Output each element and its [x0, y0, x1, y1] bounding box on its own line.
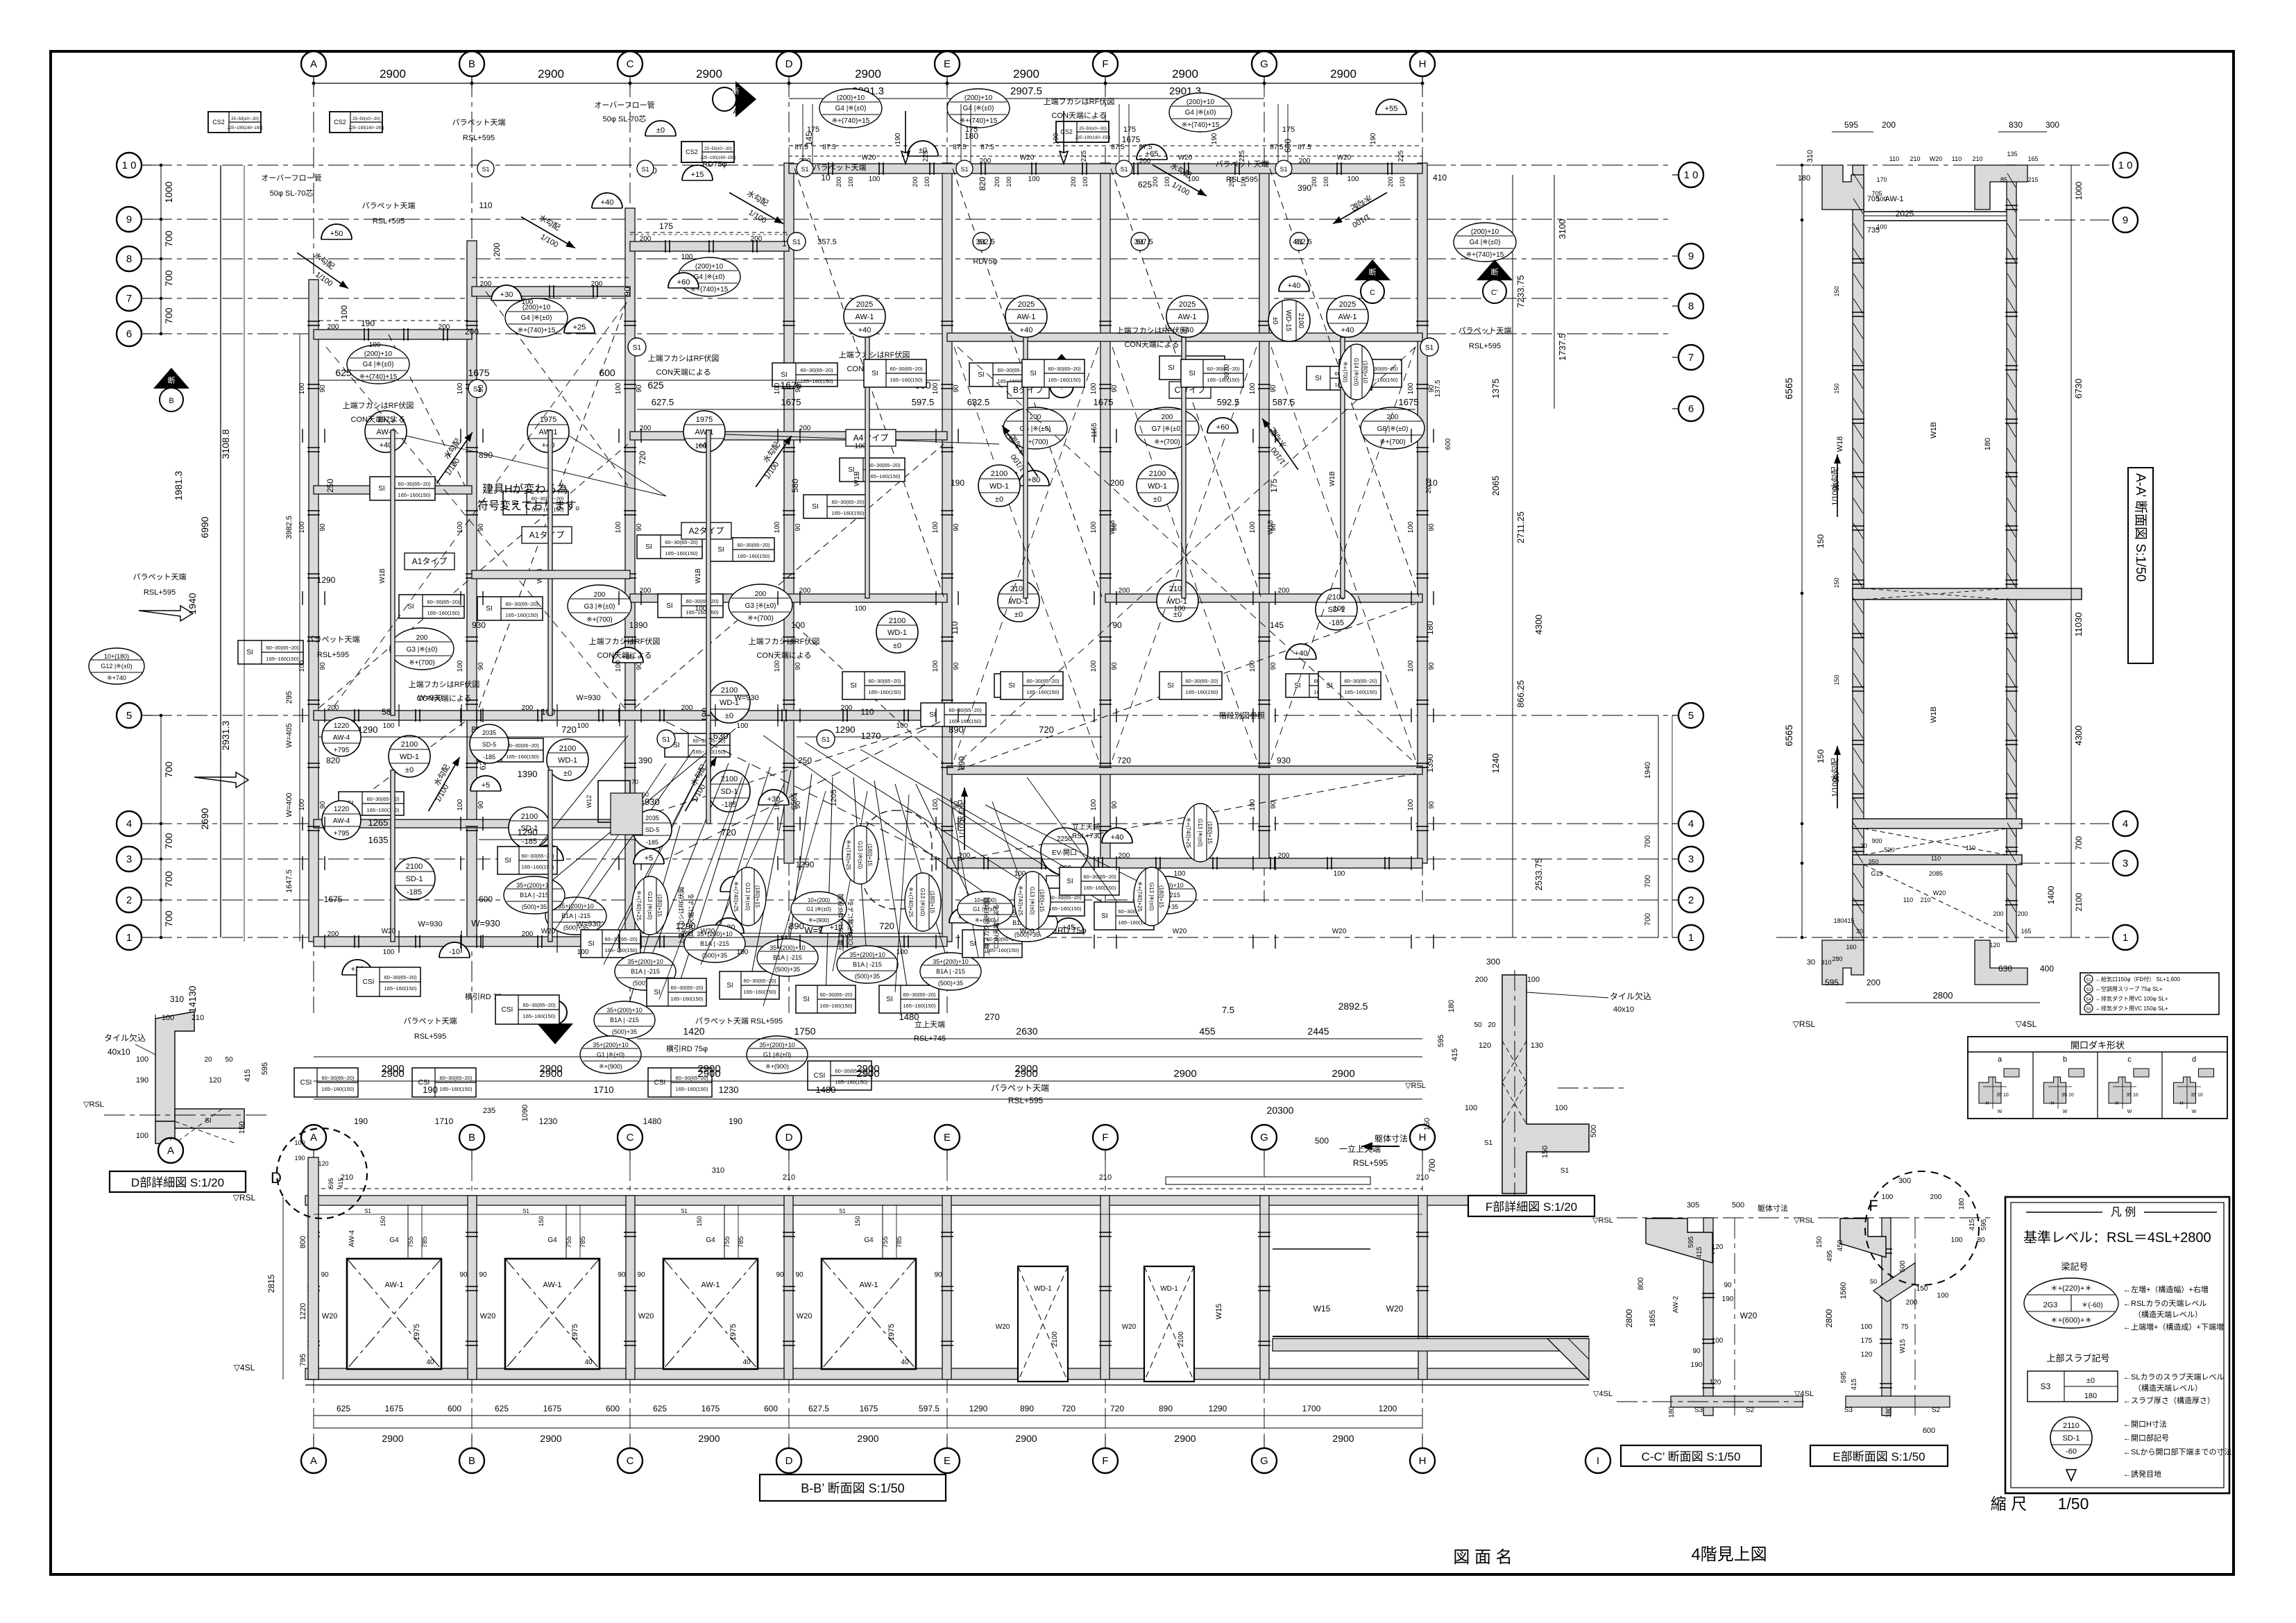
svg-text:165~160(150): 165~160(150)	[820, 1003, 853, 1009]
svg-text:S1: S1	[482, 166, 489, 173]
svg-text:60~30(65~20): 60~30(65~20)	[800, 367, 833, 373]
svg-text:±0: ±0	[563, 770, 572, 778]
svg-text:200: 200	[1162, 414, 1173, 421]
svg-text:上端フカシはRF伏図: 上端フカシはRF伏図	[648, 353, 720, 363]
svg-text:立上天端: 立上天端	[1072, 822, 1100, 831]
svg-text:SI: SI	[1189, 370, 1195, 377]
svg-text:90: 90	[319, 384, 327, 393]
svg-text:G4 |※(±0): G4 |※(±0)	[835, 105, 867, 112]
svg-text:B1A | -215: B1A | -215	[700, 940, 729, 947]
svg-text:AW-4: AW-4	[333, 734, 350, 742]
svg-text:25~50(±0~-30): 25~50(±0~-30)	[231, 117, 259, 121]
svg-text:←スラブ厚さ（構造厚さ）: ←スラブ厚さ（構造厚さ）	[2123, 1395, 2215, 1405]
svg-text:SI: SI	[654, 989, 660, 996]
svg-text:50: 50	[1474, 1021, 1482, 1029]
svg-text:625: 625	[1138, 180, 1152, 189]
svg-text:3108.8: 3108.8	[220, 429, 231, 459]
svg-text:150: 150	[1833, 772, 1840, 782]
svg-text:1220: 1220	[334, 722, 350, 730]
svg-text:10+(200): 10+(200)	[808, 897, 831, 903]
svg-text:←左増+（構造幅）+右増: ←左増+（構造幅）+右増	[2123, 1284, 2209, 1294]
svg-text:627.5: 627.5	[808, 1404, 829, 1413]
svg-text:10: 10	[821, 173, 831, 182]
svg-text:W18: W18	[1109, 520, 1116, 534]
svg-text:B1A | -215: B1A | -215	[853, 961, 882, 968]
svg-text:450: 450	[1837, 1239, 1844, 1251]
svg-text:パラペット天端: パラペット天端	[404, 1017, 457, 1026]
svg-text:755: 755	[407, 1236, 415, 1248]
svg-text:200: 200	[1152, 176, 1159, 187]
svg-text:190: 190	[354, 1116, 368, 1126]
svg-text:※+(700): ※+(700)	[1342, 362, 1348, 382]
svg-text:G4: G4	[864, 1237, 874, 1244]
svg-text:A: A	[310, 1132, 317, 1144]
svg-text:W1B: W1B	[1930, 706, 1938, 723]
svg-text:G4 |※(±0): G4 |※(±0)	[694, 273, 725, 281]
svg-text:W20: W20	[1020, 928, 1035, 935]
svg-text:2630: 2630	[1016, 1026, 1037, 1037]
svg-text:930: 930	[1277, 756, 1291, 765]
svg-text:CSI: CSI	[300, 1079, 312, 1087]
svg-text:35 10: 35 10	[2061, 1093, 2074, 1098]
svg-text:(180)+15: (180)+15	[1039, 890, 1045, 912]
svg-text:G1 |※(±0): G1 |※(±0)	[806, 906, 831, 912]
svg-text:120: 120	[1861, 1351, 1873, 1359]
svg-text:60~30(65~20): 60~30(65~20)	[1083, 874, 1116, 880]
svg-text:(200)+10: (200)+10	[364, 350, 393, 358]
svg-text:350: 350	[1868, 858, 1878, 865]
svg-text:90: 90	[1111, 801, 1119, 809]
svg-text:CSI: CSI	[363, 978, 375, 986]
svg-text:7: 7	[1688, 352, 1694, 364]
svg-text:40x10: 40x10	[108, 1047, 130, 1057]
svg-text:F: F	[1102, 58, 1108, 70]
svg-text:W15: W15	[1899, 1339, 1907, 1353]
svg-text:W20: W20	[1020, 154, 1035, 162]
svg-text:2025: 2025	[1179, 300, 1196, 309]
svg-text:1630: 1630	[708, 731, 729, 741]
svg-text:165: 165	[2021, 928, 2031, 935]
svg-text:800: 800	[299, 1236, 307, 1248]
svg-text:CS2: CS2	[1060, 128, 1073, 135]
svg-text:2900: 2900	[696, 67, 722, 80]
svg-text:G13 |※(±0): G13 |※(±0)	[857, 841, 863, 869]
svg-text:※+(900): ※+(900)	[599, 1063, 622, 1070]
svg-text:1/50: 1/50	[2058, 1495, 2089, 1513]
svg-text:90: 90	[1428, 523, 1436, 532]
svg-text:A-A’ 断面図 S:1/50: A-A’ 断面図 S:1/50	[2133, 473, 2148, 581]
svg-text:390: 390	[1298, 183, 1311, 193]
svg-text:2800: 2800	[1824, 1309, 1834, 1327]
svg-text:30: 30	[1807, 958, 1815, 967]
svg-text:890: 890	[479, 450, 493, 460]
svg-text:190: 190	[1053, 133, 1060, 144]
svg-text:60~30(65~20): 60~30(65~20)	[819, 992, 853, 998]
svg-text:+30: +30	[500, 291, 513, 299]
svg-text:200: 200	[1866, 978, 1880, 987]
svg-text:595: 595	[1980, 1218, 1988, 1230]
svg-text:35+(200)+10: 35+(200)+10	[933, 958, 969, 965]
svg-text:B1A | -215: B1A | -215	[936, 968, 965, 975]
svg-text:310: 310	[712, 1166, 724, 1175]
svg-text:200: 200	[1110, 478, 1124, 488]
svg-text:2900: 2900	[1015, 1433, 1037, 1444]
svg-text:2900: 2900	[539, 1068, 562, 1080]
svg-text:+795: +795	[334, 830, 350, 838]
svg-text:2G3: 2G3	[2043, 1301, 2058, 1309]
svg-text:S2: S2	[1746, 1407, 1755, 1414]
svg-text:150: 150	[380, 1216, 386, 1226]
svg-text:200: 200	[1278, 852, 1290, 860]
svg-text:930: 930	[472, 620, 486, 630]
svg-text:100: 100	[1090, 799, 1098, 810]
svg-text:S4: S4	[2086, 998, 2091, 1002]
svg-text:(180)+15: (180)+15	[1158, 885, 1164, 908]
svg-text:3: 3	[126, 853, 132, 865]
svg-text:40: 40	[901, 1359, 909, 1366]
svg-text:W20: W20	[382, 928, 396, 935]
svg-text:1480: 1480	[643, 1116, 662, 1126]
svg-text:800: 800	[1637, 1277, 1645, 1290]
svg-text:137.5: 137.5	[1434, 380, 1442, 397]
svg-text:S1: S1	[839, 1208, 846, 1214]
svg-text:2900: 2900	[1174, 1433, 1196, 1444]
svg-text:100: 100	[577, 722, 589, 730]
svg-text:←上端増+（構造成）+下端増: ←上端増+（構造成）+下端増	[2123, 1322, 2224, 1332]
svg-text:W20: W20	[1386, 1304, 1404, 1314]
svg-text:▽RSL: ▽RSL	[1794, 1216, 1814, 1225]
svg-text:C: C	[627, 58, 634, 70]
svg-text:SI: SI	[407, 603, 414, 611]
svg-text:+60: +60	[1216, 423, 1230, 432]
svg-text:120: 120	[1989, 942, 2000, 949]
svg-text:210: 210	[783, 1173, 795, 1182]
svg-text:190: 190	[1370, 133, 1377, 144]
svg-text:W20: W20	[1337, 154, 1352, 162]
svg-text:890: 890	[1159, 1404, 1173, 1413]
svg-text:断: 断	[1491, 267, 1499, 277]
svg-text:100: 100	[932, 660, 939, 672]
svg-text:100: 100	[1407, 799, 1415, 810]
svg-text:200: 200	[1119, 587, 1130, 595]
svg-text:G1 |※(±0): G1 |※(±0)	[763, 1051, 791, 1058]
svg-text:100: 100	[855, 605, 867, 613]
svg-text:SD-1: SD-1	[2062, 1434, 2080, 1443]
svg-text:100: 100	[1712, 1337, 1724, 1345]
svg-text:150: 150	[1816, 749, 1826, 763]
svg-text:SI: SI	[781, 371, 787, 379]
svg-text:躯体寸法: 躯体寸法	[1375, 1133, 1408, 1144]
svg-text:1200: 1200	[1379, 1404, 1397, 1413]
svg-text:1675: 1675	[385, 1404, 404, 1413]
svg-text:G8 |※(±0): G8 |※(±0)	[1377, 425, 1409, 433]
svg-text:S1: S1	[1279, 166, 1287, 173]
svg-text:+40: +40	[858, 326, 871, 334]
svg-text:200: 200	[1030, 414, 1041, 421]
svg-text:1400: 1400	[2046, 885, 2056, 904]
svg-text:175: 175	[1861, 1337, 1873, 1345]
svg-text:100: 100	[294, 1139, 305, 1146]
svg-text:100: 100	[1249, 382, 1257, 394]
svg-text:2445: 2445	[1307, 1026, 1329, 1037]
svg-text:+40: +40	[1020, 326, 1033, 334]
svg-text:250: 250	[325, 479, 335, 493]
svg-text:600: 600	[1923, 1427, 1935, 1435]
svg-text:7233.75: 7233.75	[1515, 275, 1526, 308]
svg-text:2100: 2100	[521, 813, 538, 821]
svg-text:200: 200	[1930, 1193, 1942, 1201]
svg-text:RSL+595: RSL+595	[1469, 342, 1501, 350]
svg-text:▽RSL: ▽RSL	[83, 1101, 104, 1109]
svg-text:165~160(150): 165~160(150)	[506, 612, 538, 618]
svg-text:100: 100	[457, 660, 464, 672]
svg-text:S1: S1	[1484, 1139, 1493, 1147]
svg-text:720: 720	[561, 724, 577, 735]
svg-text:90: 90	[637, 1271, 645, 1279]
svg-text:500: 500	[1732, 1201, 1744, 1209]
svg-text:d: d	[2192, 1055, 2196, 1064]
svg-text:165~160(150): 165~160(150)	[903, 1003, 936, 1009]
svg-text:60~30(65~20): 60~30(65~20)	[384, 974, 417, 980]
svg-text:415: 415	[1696, 1246, 1703, 1258]
svg-text:180: 180	[1885, 1406, 1893, 1418]
svg-text:※+(900): ※+(900)	[765, 1063, 789, 1070]
svg-text:305: 305	[1687, 1201, 1699, 1209]
svg-text:W: W	[2127, 1110, 2132, 1114]
svg-text:S1: S1	[633, 344, 642, 352]
svg-text:G13 |※(±0): G13 |※(±0)	[1029, 887, 1035, 915]
svg-text:+795: +795	[334, 747, 350, 754]
svg-text:165~160(150): 165~160(150)	[801, 378, 833, 384]
svg-text:G: G	[1260, 1132, 1268, 1144]
svg-text:S1: S1	[662, 736, 671, 744]
svg-text:500: 500	[1590, 1125, 1598, 1137]
svg-text:100: 100	[1334, 605, 1345, 613]
svg-text:B-B’ 断面図 S:1/50: B-B’ 断面図 S:1/50	[801, 1481, 904, 1495]
svg-text:310: 310	[170, 994, 184, 1004]
svg-text:6565: 6565	[1783, 724, 1794, 746]
svg-text:断: 断	[732, 86, 740, 96]
svg-text:200: 200	[328, 323, 339, 331]
svg-text:-185: -185	[1329, 619, 1344, 627]
svg-text:3: 3	[1688, 853, 1694, 865]
svg-text:165~160(150): 165~160(150)	[671, 996, 704, 1002]
svg-text:190: 190	[361, 318, 375, 328]
svg-text:G3 |※(±0): G3 |※(±0)	[584, 603, 615, 611]
svg-text:SI: SI	[850, 682, 856, 690]
svg-text:100: 100	[1937, 1292, 1949, 1300]
svg-text:165~160(150): 165~160(150)	[744, 989, 776, 995]
svg-text:595: 595	[1437, 1035, 1445, 1047]
svg-text:W: W	[2192, 1110, 2197, 1114]
svg-text:90: 90	[1270, 384, 1277, 393]
svg-text:170: 170	[1876, 176, 1887, 183]
svg-text:120: 120	[1710, 1379, 1721, 1386]
svg-text:S3: S3	[1844, 1407, 1853, 1414]
svg-text:200: 200	[1387, 176, 1394, 187]
svg-text:SI: SI	[645, 543, 652, 551]
svg-text:SI: SI	[1315, 375, 1321, 382]
svg-text:110: 110	[1889, 155, 1899, 162]
svg-text:G1 |※(±0): G1 |※(±0)	[597, 1051, 624, 1058]
svg-text:G3 |※(±0): G3 |※(±0)	[407, 646, 438, 654]
svg-text:200: 200	[1278, 587, 1290, 595]
svg-text:200: 200	[591, 280, 603, 288]
svg-text:1155: 1155	[1091, 423, 1098, 438]
svg-text:165~160(150): 165~160(150)	[835, 1079, 868, 1085]
svg-text:175: 175	[1269, 479, 1279, 493]
svg-text:60~30(65~20): 60~30(65~20)	[398, 481, 431, 487]
svg-text:E: E	[944, 58, 951, 70]
svg-text:S3: S3	[2041, 1382, 2051, 1391]
svg-text:1390: 1390	[1425, 754, 1435, 772]
svg-text:100: 100	[1249, 521, 1257, 533]
svg-text:(200)+10: (200)+10	[964, 94, 993, 102]
svg-text:1480: 1480	[816, 1085, 836, 1095]
svg-text:165~160(150): 165~160(150)	[1345, 689, 1377, 695]
svg-text:1270: 1270	[861, 731, 881, 741]
svg-text:1205: 1205	[830, 790, 838, 806]
svg-text:60~30(65~20): 60~30(65~20)	[670, 985, 704, 991]
svg-text:G13 |※(±0): G13 |※(±0)	[647, 892, 653, 920]
svg-text:165~160(150): 165~160(150)	[1027, 689, 1060, 695]
svg-text:W=405: W=405	[285, 723, 294, 747]
svg-text:35+(200)+10: 35+(200)+10	[627, 958, 663, 965]
svg-text:720: 720	[879, 921, 894, 931]
svg-text:35 10: 35 10	[2126, 1093, 2138, 1098]
svg-text:※+(700): ※+(700)	[409, 659, 435, 667]
svg-text:※+(700): ※+(700)	[747, 615, 774, 622]
svg-text:AW-1: AW-1	[860, 1281, 878, 1289]
svg-text:（構造天端レベル）: （構造天端レベル）	[2134, 1383, 2202, 1393]
svg-text:100: 100	[1407, 660, 1415, 672]
svg-text:2100: 2100	[1149, 470, 1166, 478]
svg-text:90: 90	[319, 523, 327, 532]
svg-text:AW-2: AW-2	[1672, 1295, 1680, 1313]
svg-text:175: 175	[807, 126, 819, 134]
svg-text:C: C	[627, 1455, 634, 1467]
svg-text:+40: +40	[601, 198, 614, 207]
svg-text:210: 210	[1920, 897, 1930, 903]
svg-text:1: 1	[126, 932, 132, 944]
svg-text:B: B	[169, 397, 173, 405]
svg-text:700: 700	[163, 270, 174, 287]
svg-text:100: 100	[457, 521, 464, 533]
svg-text:W20: W20	[638, 1312, 654, 1320]
svg-text:20: 20	[1488, 1021, 1496, 1029]
svg-text:W20: W20	[541, 928, 556, 935]
svg-text:165~160(150): 165~160(150)	[676, 1086, 708, 1092]
svg-text:1675: 1675	[701, 1404, 720, 1413]
svg-text:165~160(150): 165~160(150)	[266, 656, 299, 662]
svg-text:250: 250	[798, 756, 812, 765]
svg-text:横引RD 75φ: 横引RD 75φ	[666, 1044, 708, 1053]
svg-text:+80: +80	[1028, 476, 1041, 484]
svg-text:W=930: W=930	[418, 920, 442, 928]
svg-text:D: D	[785, 1132, 793, 1144]
svg-text:200: 200	[1387, 414, 1399, 421]
svg-text:595: 595	[261, 1062, 269, 1075]
svg-text:※+(740)+25: ※+(740)+25	[1137, 881, 1143, 912]
svg-text:※+740: ※+740	[107, 674, 126, 681]
svg-text:100: 100	[1407, 521, 1415, 533]
svg-text:←誘発目地: ←誘発目地	[2123, 1469, 2161, 1479]
svg-text:180: 180	[1668, 1406, 1676, 1418]
svg-text:SI: SI	[871, 370, 878, 377]
svg-text:85: 85	[2000, 176, 2007, 183]
svg-text:B: B	[468, 1132, 475, 1144]
svg-text:100: 100	[774, 382, 781, 394]
svg-text:35 10: 35 10	[2191, 1093, 2203, 1098]
svg-text:785: 785	[579, 1236, 587, 1248]
svg-text:100: 100	[1347, 176, 1359, 183]
svg-text:EV-開口: EV-開口	[1052, 849, 1077, 857]
svg-text:90: 90	[636, 523, 643, 532]
svg-text:165~160(150): 165~160(150)	[738, 553, 770, 559]
svg-text:200: 200	[480, 280, 492, 288]
svg-text:190: 190	[294, 1155, 305, 1162]
svg-text:上端フカシはRF伏図: 上端フカシはRF伏図	[409, 679, 480, 689]
svg-text:180: 180	[1425, 621, 1435, 635]
svg-text:90: 90	[622, 287, 632, 296]
svg-text:B1A | -215: B1A | -215	[631, 968, 660, 975]
svg-text:2900: 2900	[698, 1433, 720, 1444]
svg-text:W12: W12	[586, 795, 593, 808]
svg-text:452.5: 452.5	[1293, 238, 1312, 246]
svg-text:-185: -185	[722, 801, 737, 809]
svg-text:1675: 1675	[468, 367, 489, 378]
svg-text:-60: -60	[2066, 1447, 2077, 1456]
svg-text:100: 100	[383, 722, 395, 730]
svg-text:50: 50	[1870, 1278, 1877, 1285]
svg-text:110: 110	[860, 707, 874, 717]
svg-text:パラペット天端 RSL+595: パラペット天端 RSL+595	[695, 1017, 783, 1026]
svg-text:A4タイプ: A4タイプ	[853, 433, 889, 443]
svg-text:上端フカシはRF伏図: 上端フカシはRF伏図	[589, 636, 661, 646]
svg-text:CON天端による: CON天端による	[350, 415, 405, 424]
svg-text:WD-1: WD-1	[989, 482, 1009, 491]
svg-text:※+(740)+25: ※+(740)+25	[1017, 885, 1023, 916]
svg-text:1560: 1560	[1839, 1282, 1848, 1299]
svg-text:150: 150	[1833, 674, 1840, 685]
svg-text:9: 9	[2123, 214, 2128, 226]
svg-text:W20: W20	[1930, 155, 1943, 162]
svg-text:1635: 1635	[368, 835, 389, 845]
svg-text:100: 100	[1249, 660, 1257, 672]
svg-text:1290: 1290	[835, 724, 856, 735]
svg-text:2100: 2100	[889, 617, 905, 625]
svg-text:A: A	[552, 1032, 558, 1040]
svg-text:S1: S1	[801, 166, 808, 173]
svg-text:580: 580	[790, 479, 800, 493]
svg-text:G4 |※(±0): G4 |※(±0)	[521, 314, 552, 322]
svg-text:6565: 6565	[1783, 377, 1794, 399]
svg-text:CON天端による: CON天端による	[992, 904, 1000, 949]
svg-text:SI: SI	[1030, 370, 1036, 377]
svg-text:60~30(65~20): 60~30(65~20)	[522, 1002, 556, 1008]
svg-text:E: E	[944, 1455, 951, 1467]
svg-text:700: 700	[163, 307, 174, 324]
svg-text:87.5: 87.5	[1111, 144, 1125, 151]
svg-text:455: 455	[1199, 1026, 1216, 1037]
svg-text:B1A | -215: B1A | -215	[520, 892, 549, 899]
svg-text:400: 400	[2040, 964, 2054, 974]
svg-text:F: F	[1102, 1455, 1108, 1467]
svg-text:35 10: 35 10	[1996, 1093, 2009, 1098]
svg-text:▽RSL: ▽RSL	[1793, 1019, 1816, 1029]
svg-text:2900: 2900	[381, 1068, 404, 1080]
svg-text:2025: 2025	[1896, 209, 1914, 219]
